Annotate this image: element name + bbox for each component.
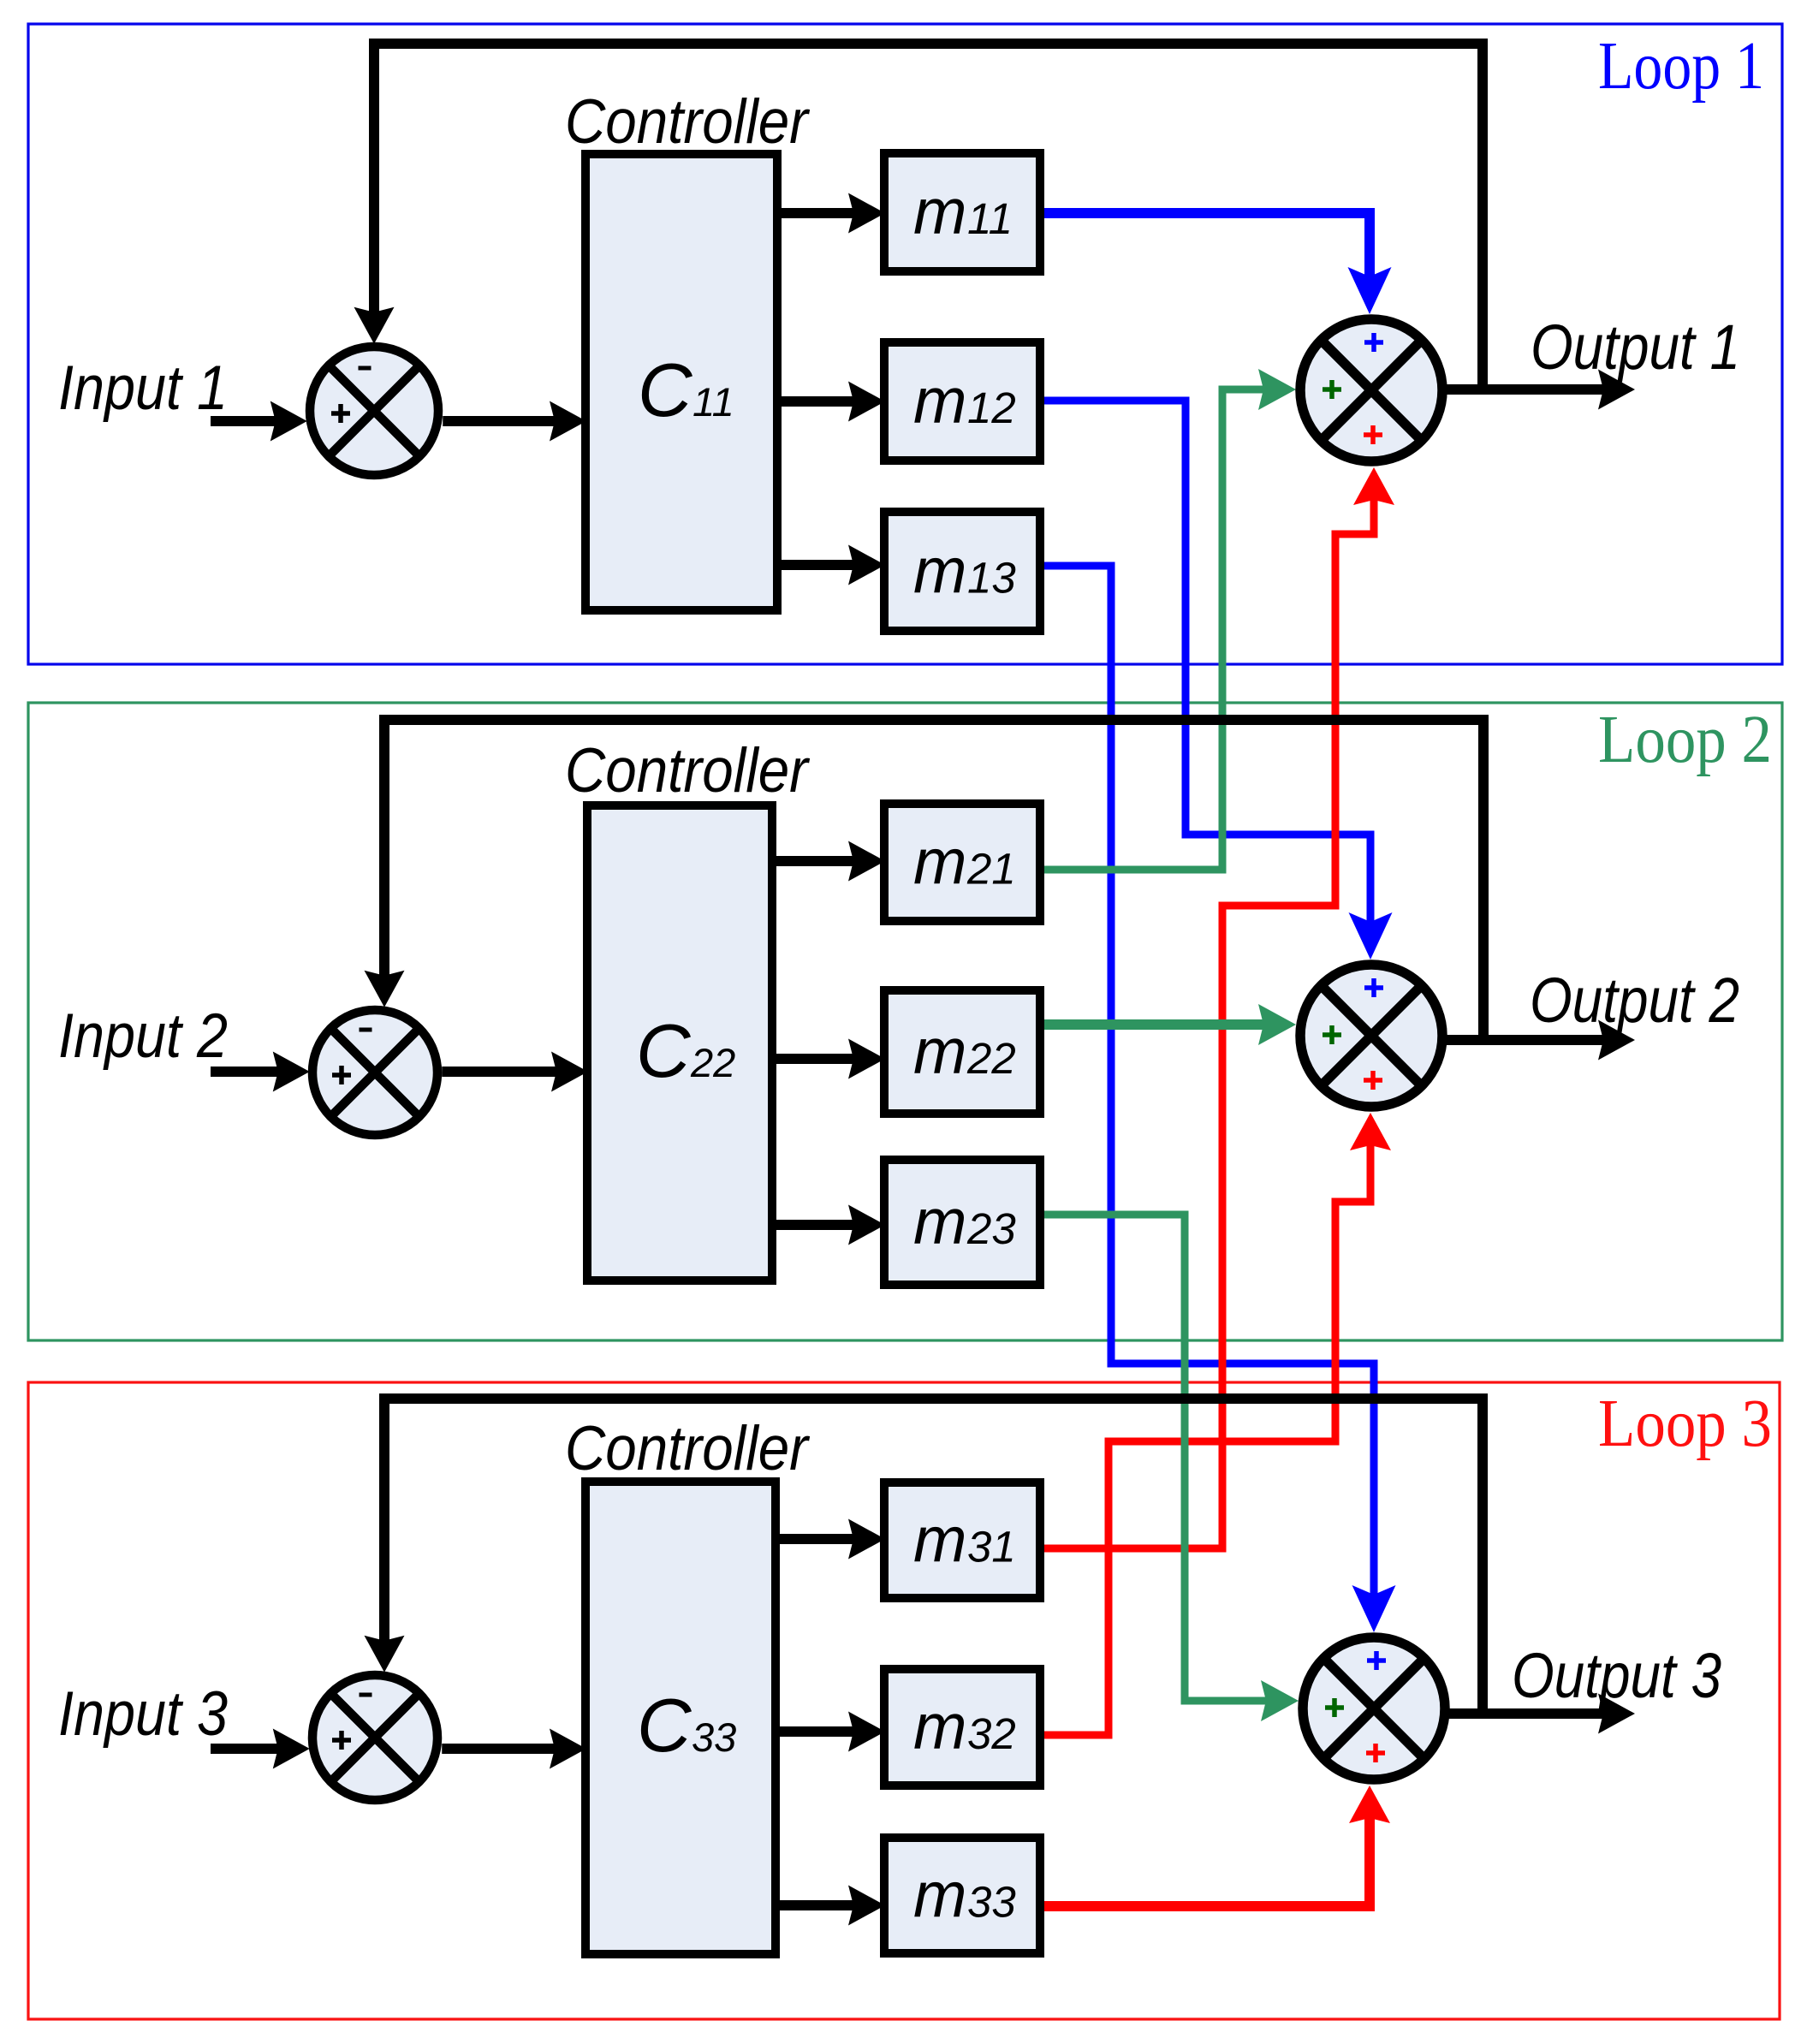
svg-text:12: 12: [967, 383, 1016, 432]
controller block C33: [585, 1482, 776, 1954]
block m23: [884, 1160, 1040, 1285]
svg-text:22: 22: [690, 1040, 735, 1085]
red plus sign on output mixer 2: [1364, 1071, 1382, 1090]
svg-text:Input 3: Input 3: [58, 1679, 228, 1749]
blue plus sign on output mixer 2: [1364, 978, 1383, 997]
summing junction S3 (input 3): [312, 1675, 437, 1800]
wire C11 to m11: [777, 208, 874, 218]
wire m13 output (blue) to output mixer 3: [1040, 566, 1374, 1619]
block m33: [884, 1838, 1040, 1953]
svg-text:m: m: [913, 826, 966, 898]
svg-text:m: m: [913, 535, 966, 607]
wire m31 output (red) to output mixer 1: [1040, 493, 1374, 1548]
wire C11 to m13: [777, 560, 874, 570]
wire feedback loop 2: [384, 720, 1483, 1040]
Loop 2 boundary box: [28, 703, 1782, 1340]
wire m22 output (green) to output mixer 2: [1041, 1019, 1284, 1030]
wire error signal S2 to controller C22: [442, 1067, 577, 1077]
svg-text:m: m: [913, 1185, 966, 1257]
minus sign on summing junction S3: [360, 1693, 372, 1697]
block m13: [884, 512, 1040, 631]
block m21: [884, 804, 1040, 921]
block m22: [884, 990, 1040, 1114]
svg-text:Controller: Controller: [565, 736, 810, 805]
blue plus sign on output mixer 1: [1364, 333, 1383, 352]
svg-text:Input 1: Input 1: [58, 354, 228, 423]
wire C22 to m21: [772, 856, 874, 866]
wire C33 to m32: [776, 1726, 874, 1737]
plus sign on summing junction S2: [332, 1066, 351, 1084]
svg-text:C: C: [638, 348, 693, 432]
svg-text:23: 23: [966, 1204, 1016, 1253]
svg-text:Input 2: Input 2: [58, 1001, 228, 1071]
block m32: [884, 1669, 1040, 1786]
block m11: [884, 153, 1040, 271]
green plus sign on output mixer 2: [1323, 1025, 1341, 1044]
wire error signal S3 to controller C33: [442, 1744, 575, 1754]
green plus sign on output mixer 3: [1325, 1698, 1344, 1717]
svg-text:32: 32: [967, 1709, 1016, 1758]
wire output 1: [1446, 384, 1623, 395]
svg-text:Output 3: Output 3: [1512, 1640, 1721, 1711]
svg-text:m: m: [913, 1504, 966, 1576]
plus sign on summing junction S3: [332, 1731, 351, 1750]
minus sign on summing junction S1: [359, 366, 372, 371]
svg-text:Controller: Controller: [565, 1414, 810, 1483]
summing junction output mixer 1: [1300, 319, 1442, 461]
wire output 2: [1446, 1035, 1623, 1045]
svg-text:C: C: [636, 1008, 692, 1093]
svg-text:13: 13: [967, 554, 1016, 603]
controller block C22: [587, 805, 772, 1280]
red plus sign on output mixer 3: [1366, 1744, 1385, 1762]
wire m11 output (blue) to output mixer 1: [1040, 213, 1370, 301]
wire input 3 into summing junction S3: [211, 1744, 298, 1754]
wire m33 output (red) to output mixer 3: [1040, 1811, 1370, 1906]
controller block C11: [585, 154, 777, 610]
Loop 3 boundary box: [28, 1382, 1780, 2019]
wire feedback loop 3: [384, 1399, 1483, 1714]
summing junction output mixer 3: [1303, 1637, 1445, 1780]
svg-text:22: 22: [966, 1034, 1016, 1083]
svg-text:m: m: [913, 1859, 966, 1931]
wire error signal S1 to controller C11: [443, 416, 575, 426]
block m31: [884, 1482, 1040, 1598]
wire m12 output (blue) to output mixer 2: [1040, 401, 1370, 947]
svg-text:Output 2: Output 2: [1530, 965, 1739, 1036]
wire output 3: [1448, 1708, 1623, 1719]
summing junction S1 (input 1): [310, 347, 438, 475]
svg-text:Loop 2: Loop 2: [1598, 703, 1772, 777]
svg-text:C: C: [637, 1683, 692, 1768]
wire m32 output (red) to output mixer 2: [1040, 1138, 1370, 1735]
wire m21 output (green) to output mixer 1: [1038, 389, 1284, 870]
summing junction output mixer 2: [1300, 965, 1442, 1107]
red plus sign on output mixer 1: [1364, 425, 1382, 444]
block m12: [884, 342, 1040, 460]
svg-text:21: 21: [966, 845, 1016, 894]
svg-text:Output 1: Output 1: [1531, 312, 1740, 383]
svg-text:11: 11: [967, 194, 1013, 243]
svg-text:33: 33: [692, 1714, 736, 1760]
wire C22 to m22: [772, 1054, 874, 1064]
plus sign on summing junction S1: [331, 404, 350, 423]
svg-text:m: m: [913, 175, 966, 247]
wire feedback loop 1: [374, 44, 1483, 389]
wire m23 output (green) to output mixer 3: [1041, 1215, 1287, 1701]
svg-text:m: m: [913, 1015, 966, 1087]
wire C33 to m31: [776, 1534, 874, 1544]
minus sign on summing junction S2: [360, 1028, 372, 1032]
wire C33 to m33: [776, 1900, 874, 1910]
green plus sign on output mixer 1: [1323, 380, 1341, 399]
summing junction S2 (input 2): [312, 1010, 437, 1135]
blue plus sign on output mixer 3: [1367, 1651, 1386, 1670]
svg-text:31: 31: [967, 1523, 1016, 1572]
Loop 1 boundary box: [28, 24, 1782, 664]
svg-text:m: m: [913, 365, 966, 437]
wire input 1 into summing junction S1: [211, 416, 295, 426]
svg-text:Loop 3: Loop 3: [1598, 1387, 1772, 1461]
wire C11 to m12: [777, 396, 874, 407]
svg-text:Loop 1: Loop 1: [1598, 29, 1764, 104]
wire input 2 into summing junction S2: [211, 1067, 298, 1077]
svg-text:11: 11: [692, 379, 734, 425]
svg-text:33: 33: [967, 1878, 1016, 1927]
svg-text:m: m: [913, 1690, 966, 1762]
svg-text:Controller: Controller: [565, 87, 810, 157]
wire C22 to m23: [772, 1220, 874, 1230]
